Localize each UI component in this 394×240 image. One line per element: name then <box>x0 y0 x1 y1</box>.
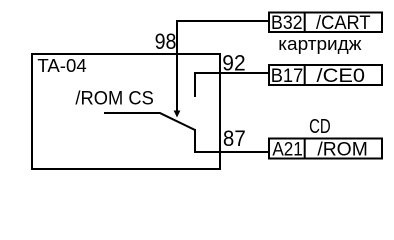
svg-text:B32: B32 <box>271 13 303 34</box>
connector pin A21 box <box>269 139 382 159</box>
switch S1 blade <box>160 113 196 130</box>
connector pin B17 box <box>269 65 382 85</box>
svg-text:98: 98 <box>155 29 177 54</box>
svg-text:/ROM: /ROM <box>317 139 368 160</box>
svg-text:92: 92 <box>222 51 245 76</box>
IC U1 TA-04 body <box>32 54 220 169</box>
divider B32 box <box>304 12 306 33</box>
svg-text:B17: B17 <box>271 66 304 87</box>
wire pin 87 <box>195 129 268 152</box>
svg-text:TA-04: TA-04 <box>37 55 86 76</box>
svg-text:A21: A21 <box>272 139 303 160</box>
svg-text:картридж: картридж <box>278 33 362 54</box>
divider B17 box <box>304 64 306 85</box>
divider A21 box <box>304 138 306 159</box>
svg-text:87: 87 <box>223 126 246 151</box>
svg-text:/CE0: /CE0 <box>317 66 366 87</box>
svg-text:/ROM CS: /ROM CS <box>75 89 153 110</box>
svg-text:/CART: /CART <box>316 13 371 34</box>
wire pin 92 contact <box>195 73 268 97</box>
connector pin B32 box <box>269 13 382 33</box>
svg-text:CD: CD <box>309 115 331 138</box>
wire pin 98 control <box>177 21 268 111</box>
switch S1 common wire /ROM CS <box>104 112 160 114</box>
arrowhead pin 98 <box>174 111 181 118</box>
